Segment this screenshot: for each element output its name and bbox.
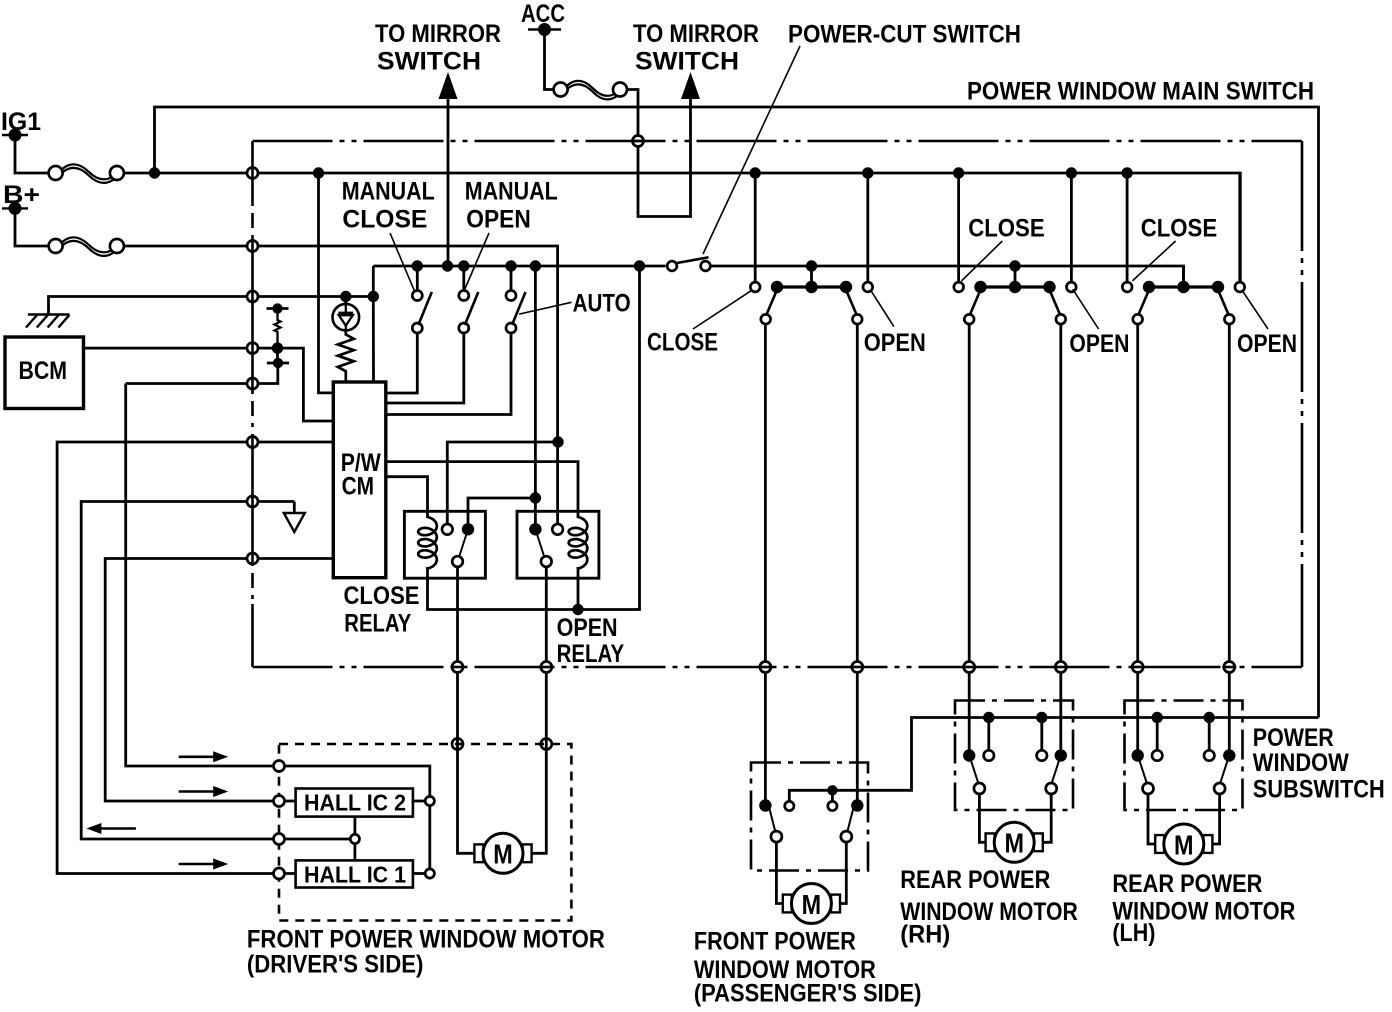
label FRONT POWER WINDOW MOTOR (PASSENGER'S SIDE) [694,927,922,1007]
P/W CM module box [333,382,386,578]
open relay box [517,511,599,578]
label FRONT POWER WINDOW MOTOR (DRIVER'S SIDE) [247,925,605,978]
open relay contacts [529,523,563,567]
terminal bar upper [267,303,289,313]
window switch group 3 (rear LH) [1122,266,1244,324]
connector circle hall2 at motor box [274,796,285,807]
wire group1 close feed [754,173,757,282]
junction rail sw2 [458,260,469,271]
junction rail coil return [634,260,645,271]
svg-text:TO MIRROR: TO MIRROR [375,20,501,48]
svg-text:TO MIRROR: TO MIRROR [633,20,759,48]
wire P/W CM to close relay coil [386,477,428,518]
svg-text:(DRIVER'S SIDE): (DRIVER'S SIDE) [247,951,424,979]
wire ground line [49,297,374,315]
svg-text:MANUAL: MANUAL [342,177,435,205]
svg-text:CM: CM [342,473,375,501]
junction feed RH stub2 [1036,712,1047,723]
wire ACC fuse to mirror switch feed [627,90,691,217]
close relay contacts [442,523,474,567]
arrow flow right (hall1) [179,859,229,870]
svg-text:OPEN: OPEN [557,614,618,642]
svg-text:ACC: ACC [521,0,565,28]
wire hall2 signal [105,559,333,802]
connector circle boundary x=969.2 [962,662,976,673]
junction rail relay line [530,260,541,271]
svg-text:CLOSE: CLOSE [647,329,718,357]
connector circle close wire at motor box [452,739,463,750]
motor M2 (front passenger window) [783,884,840,924]
svg-text:CLOSE: CLOSE [968,215,1044,243]
label REAR POWER WINDOW MOTOR (RH) [900,866,1078,949]
junction IG1 rail group3 close feed [1121,167,1132,178]
arrow to mirror switch (right) [633,20,759,99]
svg-text:M: M [493,839,513,870]
svg-text:HALL IC 2: HALL IC 2 [304,790,406,816]
junction IG1 rail group1 open feed [862,167,873,178]
svg-text:RELAY: RELAY [344,610,411,638]
wire coil return line [428,266,640,610]
wire window motor feed x=765.4 [764,325,767,804]
wire hall mid link [353,817,356,861]
connector circle ground line enters main switch [247,290,258,304]
wire LH stub1 [1156,718,1159,751]
junction close/open relay drive [530,492,541,503]
connector circle boundary x=765.4 [758,662,772,673]
motor M1 (driver front window) [474,833,531,873]
junction rail mirror tap [442,260,453,271]
svg-text:(LH): (LH) [1112,919,1155,947]
connector circle close wire at boundary [451,662,465,673]
rear RH subswitch contacts [963,749,1067,794]
wire subswitch feed [789,718,1318,802]
svg-text:CLOSE: CLOSE [342,206,427,234]
junction ground/LED branch [340,291,351,302]
label OPEN (group3) [1237,292,1297,358]
svg-text:OPEN: OPEN [466,206,531,234]
switch S3 (AUTO) [386,266,526,415]
svg-text:REAR POWER: REAR POWER [900,866,1050,894]
svg-text:OPEN: OPEN [1237,330,1297,358]
wire RH stub1 [987,718,990,751]
wire window motor feed x=1229.3 [1228,325,1231,756]
open relay coil [569,517,588,569]
connector circle hall supply at motor box [274,761,285,772]
pin circle hall2 right [425,796,434,805]
wire group2 open feed [1070,173,1073,282]
label CLOSE (group1) [647,290,753,357]
pin circle hall1 right [425,869,434,878]
connector circle BCM line enters main switch [247,341,258,355]
connector circle cluster line crosses boundary [247,377,258,391]
wire RH motor right [1042,794,1052,842]
connector circle IG1 rail enters main switch [247,166,258,180]
svg-text:IG1: IG1 [1,108,41,136]
resistor R2 (LED series) [338,331,354,382]
fuse F2 (B+ circuit) [49,237,124,256]
svg-text:B+: B+ [3,181,40,209]
rear LH subswitch contacts [1132,749,1236,794]
junction feed LH stub2 [1204,712,1215,723]
LED indicator [333,297,360,332]
label OPEN RELAY [557,614,625,668]
wire window motor feed x=857.3 [856,325,859,804]
wire window motor feed x=1060.8 [1059,325,1062,756]
main switch boundary left edge [251,141,254,667]
front passenger subswitch enclosure [751,763,868,871]
wire group2 close feed [957,173,960,282]
junction IG1/top line [149,167,160,178]
connector circle boundary x=857.3 [850,662,864,673]
label OPEN (group1) [864,292,926,357]
label CLOSE RELAY [344,582,420,638]
wire ground to P/W CM [372,297,375,382]
BCM box [5,337,84,409]
svg-text:HALL IC 1: HALL IC 1 [304,862,406,888]
fuse F1 (IG1 circuit) [49,164,124,183]
svg-text:CLOSE: CLOSE [1141,215,1218,243]
svg-text:BCM: BCM [19,357,68,385]
resistor R1 (small) [275,309,281,349]
wire switch rail left edge [372,266,375,297]
svg-text:MANUAL: MANUAL [465,177,558,205]
label OPEN (group2) [1069,289,1129,358]
wire IG1 to fuse [15,135,49,173]
svg-text:POWER: POWER [1253,724,1334,752]
node IG1 terminal [1,108,41,142]
junction IG1 rail group2 close feed [953,167,964,178]
node ACC terminal [521,0,565,36]
label CLOSE (group3) [1132,215,1217,281]
wire BCM to P/W CM [84,348,334,421]
wire LH stub2 [1208,718,1211,751]
rear RH subswitch enclosure [955,701,1073,811]
svg-text:POWER WINDOW MAIN SWITCH: POWER WINDOW MAIN SWITCH [967,78,1314,106]
svg-text:(RH): (RH) [900,921,950,949]
label POWER WINDOW MAIN SWITCH [967,78,1314,106]
junction BCM line / resistor cluster [272,342,283,353]
wire main power top line [155,107,1319,718]
wire close relay drive contact [468,498,535,524]
label MANUAL OPEN [464,177,558,291]
node B+ terminal [2,181,40,215]
window switch group 2 (rear RH) [954,260,1076,324]
fuse F3 (ACC circuit) [554,81,627,100]
svg-text:AUTO: AUTO [573,290,631,318]
svg-text:FRONT POWER WINDOW MOTOR: FRONT POWER WINDOW MOTOR [247,925,605,953]
signal ground symbol [284,502,305,533]
wire hall ground return [81,502,349,840]
close relay box [404,511,485,578]
svg-text:WINDOW: WINDOW [1253,749,1349,777]
junction rail sw3 [505,260,516,271]
HALL IC 1 block [296,860,413,887]
wire ACC to fuse [545,30,554,90]
label AUTO [519,290,631,318]
wire group3 open feed [1238,173,1241,282]
window switch group 1 (front passenger) [750,260,872,324]
front power window motor (driver) enclosure [279,744,571,921]
connector circle ground return crosses boundary [247,495,258,509]
junction ground line corner [368,291,379,302]
arrow flow right (supply) [179,751,229,762]
svg-text:SWITCH: SWITCH [635,48,739,76]
label MANUAL CLOSE [342,177,435,291]
connector circle open wire at motor box [541,739,552,750]
junction feed front passenger stub [827,785,837,795]
wire mirror switch tap [447,99,450,266]
switch S2 (MANUAL OPEN) [386,266,479,403]
wire group1 open feed [866,173,869,282]
rear LH subswitch enclosure [1125,701,1243,811]
connector circle boundary x=1137.7 [1131,662,1145,673]
junction IG1 rail group2 open feed [1066,167,1077,178]
wire open relay to driver motor [529,567,546,853]
front passenger subswitch contacts [759,799,863,842]
wire cluster vertical [126,348,278,383]
connector circle boundary x=1060.8 [1054,662,1068,673]
connector circle ACC line crosses main-switch boundary [631,136,645,147]
wire hall1 signal [57,442,333,874]
terminal bar lower [267,358,289,368]
wire front motor right [839,842,847,903]
motor M4 (rear LH window) [1155,824,1212,864]
junction feed LH stub1 [1152,712,1163,723]
wire RH stub2 [1040,718,1043,751]
label CLOSE (group2) [962,215,1045,281]
junction feed RH stub1 [983,712,994,723]
pin circle mid link [350,834,359,843]
connector circle ground return at motor box [274,834,285,845]
wire RH motor left [979,794,986,842]
wire IG1 to P/W CM [319,173,334,393]
svg-text:OPEN: OPEN [1069,330,1129,358]
svg-text:FRONT POWER: FRONT POWER [694,927,856,955]
wire close relay NC contact to common [447,442,558,524]
arrow to mirror switch (left) [375,20,501,99]
svg-text:RELAY: RELAY [557,640,625,668]
svg-text:(PASSENGER'S SIDE): (PASSENGER'S SIDE) [694,980,922,1008]
label REAR POWER WINDOW MOTOR (LH) [1112,870,1295,947]
svg-text:POWER-CUT SWITCH: POWER-CUT SWITCH [788,21,1021,49]
wire window motor feed x=969.2 [968,325,971,756]
junction relay common / B+ line [552,436,563,447]
main switch boundary right edge [1301,141,1304,667]
connector circle boundary x=1229.3 [1222,662,1236,673]
wire B+ rail [124,246,558,530]
power-cut switch [667,21,1021,271]
wire hall supply line [126,384,430,802]
close relay coil [418,517,437,569]
wire open relay coil bottom [577,567,580,610]
svg-text:OPEN: OPEN [864,329,926,357]
arrow flow right (hall2) [179,786,229,797]
svg-text:REAR POWER: REAR POWER [1112,870,1262,898]
motor M3 (rear RH window) [986,822,1043,862]
wire relay drive line [534,266,537,524]
wire P/W CM to open relay coil [386,462,578,518]
HALL IC 2 block [296,789,413,817]
label POWER WINDOW SUBSWITCH [1253,724,1385,803]
connector circle open wire at boundary [539,662,553,673]
wire front motor left [776,842,784,903]
wire group3 close feed [1126,173,1129,282]
arrow flow left (ground return) [86,823,135,834]
wire switch top rail [373,266,1183,281]
wire front stub2 [831,790,834,801]
wire IG1 rail [124,173,1240,281]
svg-text:CLOSE: CLOSE [344,582,420,610]
wire close relay to driver motor [458,567,475,853]
connector circle hall2 line crosses boundary [247,552,258,566]
wire LH motor left [1148,794,1156,844]
connector circle B+ rail enters main switch [247,239,258,253]
svg-text:SUBSWITCH: SUBSWITCH [1253,775,1385,803]
wire B+ to fuse [15,208,49,246]
junction rail sw1 [412,260,423,271]
connector circle hall1 line crosses boundary [247,435,258,449]
junction coil return [572,604,583,615]
svg-text:M: M [802,889,822,920]
junction IG1 rail x=318 [313,167,324,178]
main switch boundary bottom edge [253,666,1303,669]
main switch boundary top edge [253,140,1303,143]
ground symbol [26,315,70,328]
junction IG1 rail group1 close feed [750,167,761,178]
switch S1 (MANUAL CLOSE) [386,266,432,393]
wire hall supply to IC pins [413,801,430,874]
connector circle hall1 at motor box [274,868,285,879]
svg-text:SWITCH: SWITCH [377,48,481,76]
wire window motor feed x=1137.7 [1136,325,1139,756]
svg-text:M: M [1004,828,1024,859]
wire LH motor right [1211,794,1219,844]
svg-text:M: M [1174,829,1194,860]
